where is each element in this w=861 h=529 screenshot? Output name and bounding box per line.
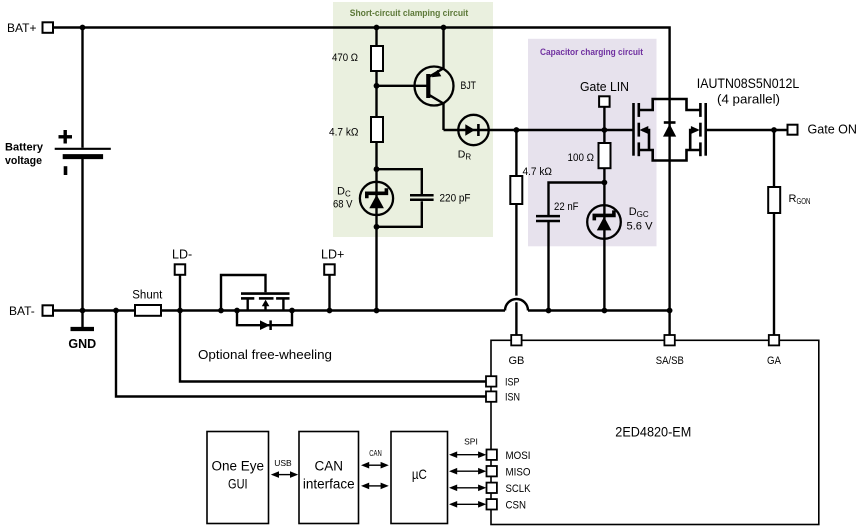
svg-text:68 V: 68 V xyxy=(333,199,353,211)
svg-text:SA/SB: SA/SB xyxy=(656,355,684,367)
svg-text:LD-: LD- xyxy=(172,248,192,262)
svg-text:BAT-: BAT- xyxy=(9,304,35,318)
svg-text:interface: interface xyxy=(303,477,355,492)
svg-text:µC: µC xyxy=(412,466,427,482)
svg-text:One Eye: One Eye xyxy=(212,459,265,474)
svg-text:Capacitor charging circuit: Capacitor charging circuit xyxy=(540,47,644,58)
svg-text:MISO: MISO xyxy=(506,467,531,479)
svg-text:GB: GB xyxy=(508,355,524,367)
svg-text:CSN: CSN xyxy=(506,500,527,512)
svg-text:(4 parallel): (4 parallel) xyxy=(717,91,780,106)
svg-text:Gate ON: Gate ON xyxy=(808,123,858,137)
svg-text:Optional free-wheeling: Optional free-wheeling xyxy=(198,348,332,362)
svg-text:Battery: Battery xyxy=(5,142,44,154)
svg-text:SCLK: SCLK xyxy=(506,483,532,495)
svg-text:220 pF: 220 pF xyxy=(440,193,471,205)
svg-text:MOSI: MOSI xyxy=(506,450,531,462)
svg-text:CAN: CAN xyxy=(369,448,382,458)
svg-text:5.6 V: 5.6 V xyxy=(627,221,654,233)
svg-text:4.7 kΩ: 4.7 kΩ xyxy=(523,166,553,178)
svg-text:100 Ω: 100 Ω xyxy=(568,152,595,164)
svg-text:Short-circuit clamping circuit: Short-circuit clamping circuit xyxy=(350,8,469,19)
svg-text:2ED4820-EM: 2ED4820-EM xyxy=(615,424,691,440)
svg-text:voltage: voltage xyxy=(5,155,42,167)
svg-text:SPI: SPI xyxy=(464,437,478,447)
svg-text:IAUTN08S5N012L: IAUTN08S5N012L xyxy=(697,75,800,91)
svg-text:22 nF: 22 nF xyxy=(554,201,579,213)
svg-text:Shunt: Shunt xyxy=(132,289,163,301)
svg-text:CAN: CAN xyxy=(315,459,344,474)
svg-text:GUI: GUI xyxy=(228,477,248,492)
svg-text:Gate LIN: Gate LIN xyxy=(580,80,629,94)
svg-text:LD+: LD+ xyxy=(321,248,344,262)
svg-text:BAT+: BAT+ xyxy=(7,21,36,35)
svg-text:RGON: RGON xyxy=(789,193,811,206)
svg-text:ISN: ISN xyxy=(505,392,520,404)
svg-text:BJT: BJT xyxy=(461,80,477,92)
svg-text:GA: GA xyxy=(767,355,782,367)
svg-text:4.7 kΩ: 4.7 kΩ xyxy=(329,127,359,139)
svg-text:ISP: ISP xyxy=(505,377,520,389)
svg-text:470 Ω: 470 Ω xyxy=(332,52,358,64)
svg-text:USB: USB xyxy=(274,458,292,468)
svg-text:GND: GND xyxy=(68,337,96,351)
